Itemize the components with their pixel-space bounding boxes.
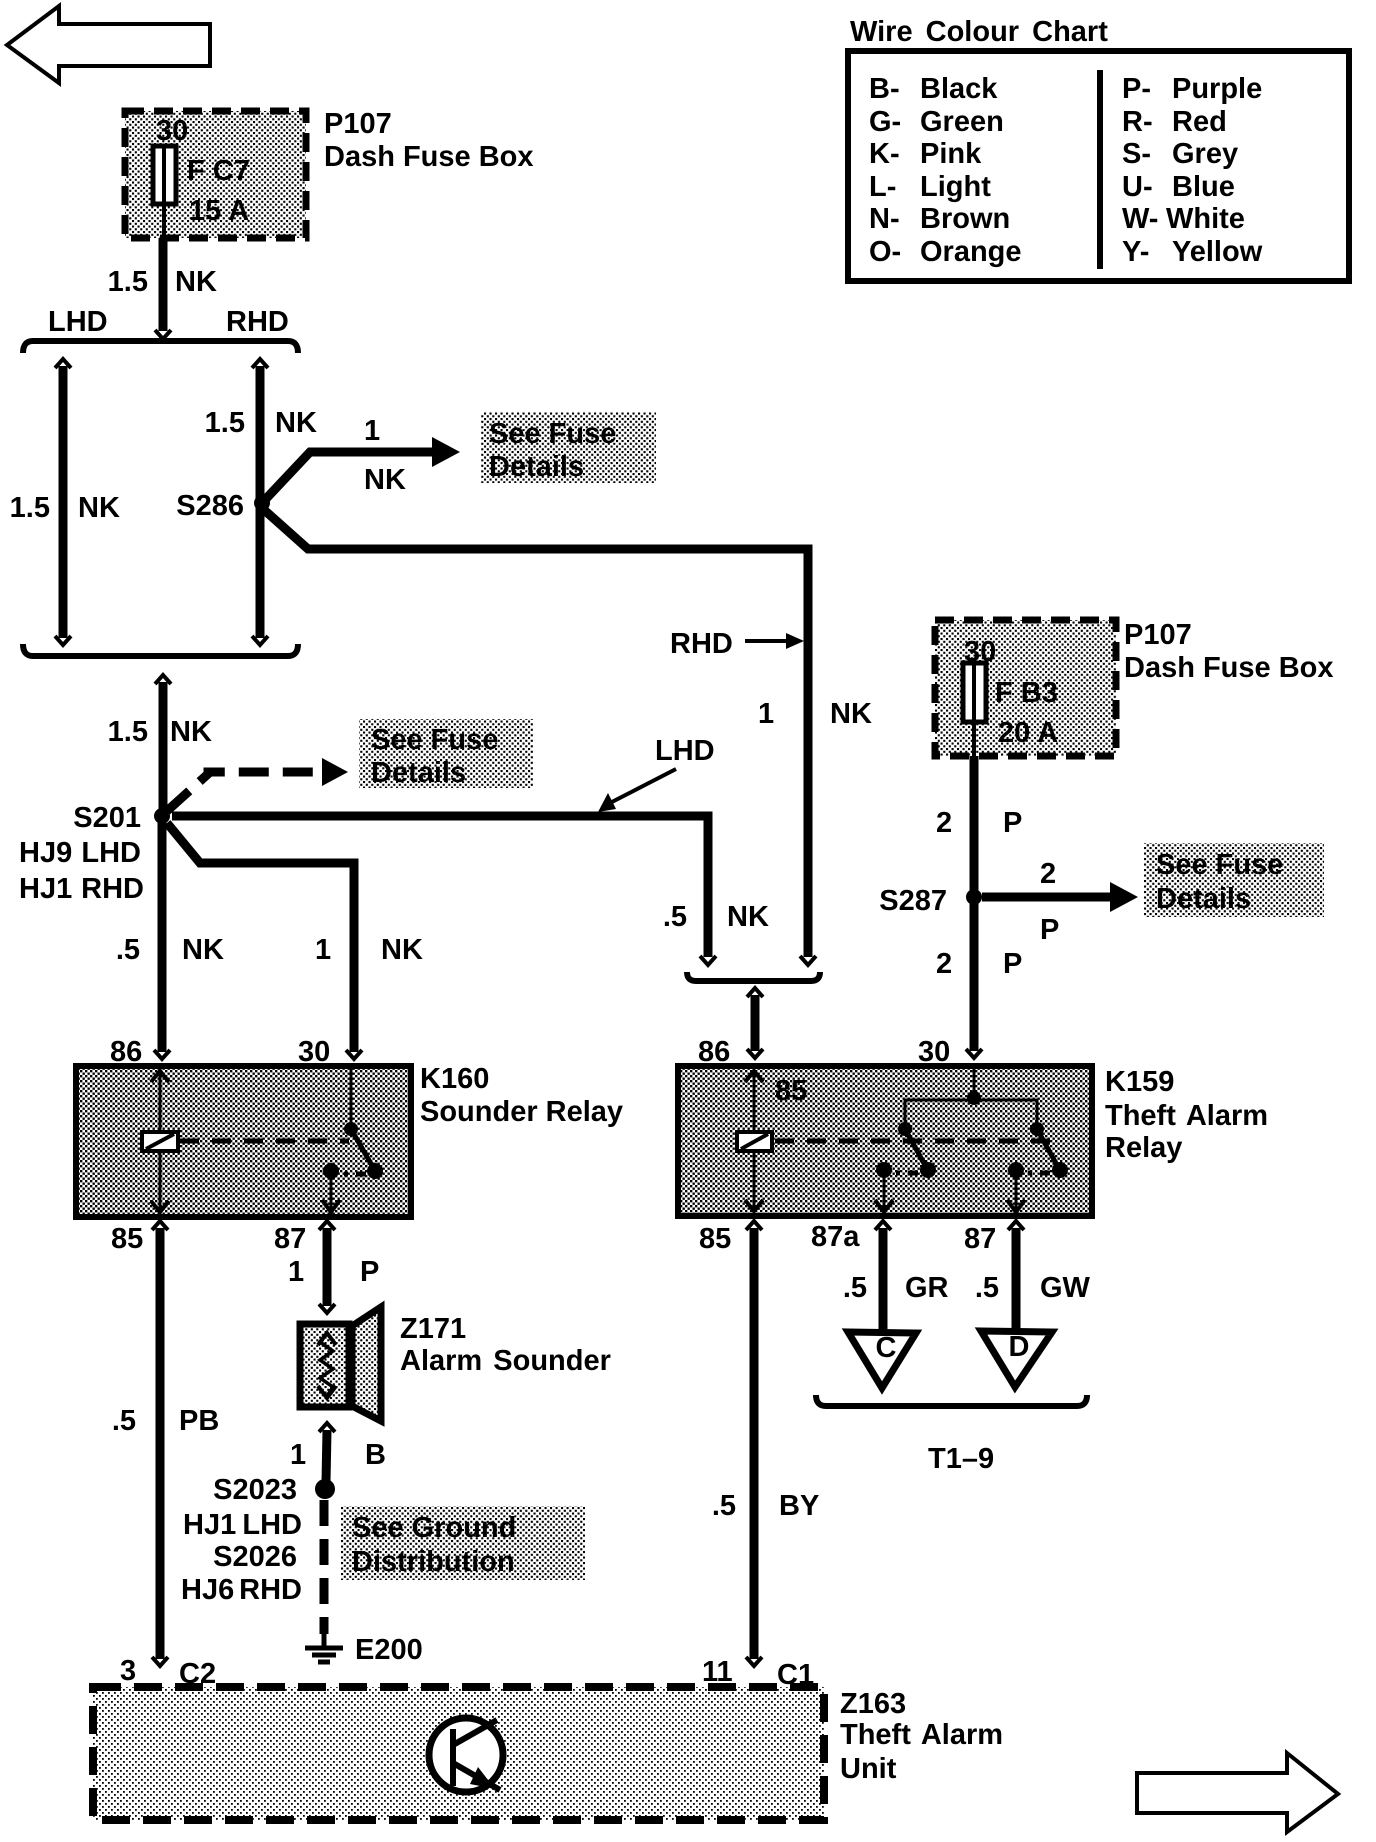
svg-text:Details: Details <box>489 451 584 483</box>
svg-text:C: C <box>876 1332 897 1364</box>
svg-text:1.5: 1.5 <box>205 407 245 439</box>
svg-text:T1–9: T1–9 <box>928 1443 994 1475</box>
svg-text:Grey: Grey <box>1172 138 1238 170</box>
wire LHD branch (left vertical) <box>55 359 71 645</box>
svg-text:S287: S287 <box>879 885 947 917</box>
svg-text:Unit: Unit <box>840 1753 897 1785</box>
relay K159 box <box>678 1066 1092 1216</box>
wire K159 87a to connector C <box>875 1221 891 1334</box>
wire RHD branch (right vertical) <box>252 359 268 645</box>
svg-text:87a: 87a <box>811 1221 860 1253</box>
svg-text:NK: NK <box>175 266 217 298</box>
svg-text:Black: Black <box>920 73 998 105</box>
LHD pointer <box>598 735 715 812</box>
nav arrow left (top-left page arrow) <box>7 6 210 83</box>
svg-text:G-: G- <box>869 106 901 138</box>
svg-text:.5: .5 <box>843 1272 867 1304</box>
svg-text:HJ6: HJ6 <box>181 1574 234 1606</box>
svg-text:Green: Green <box>920 106 1004 138</box>
wire colour chart box <box>848 51 1349 281</box>
svg-text:F C7: F C7 <box>187 155 250 187</box>
svg-text:30: 30 <box>156 115 188 147</box>
K159 switch left (to 87a) <box>875 1122 936 1212</box>
K160 coil dashed link <box>180 1139 349 1144</box>
svg-text:BY: BY <box>779 1490 819 1522</box>
connector D triangle <box>981 1331 1052 1387</box>
wire S286 to RHD drop (long) <box>262 508 816 965</box>
svg-text:NK: NK <box>182 934 224 966</box>
svg-text:Blue: Blue <box>1172 171 1235 203</box>
K159 switch right (to 87) <box>1007 1122 1068 1212</box>
svg-text:Red: Red <box>1172 106 1227 138</box>
svg-text:P: P <box>1040 914 1059 946</box>
svg-text:Alarm Sounder: Alarm Sounder <box>400 1345 611 1377</box>
K160 coil line pin86-85 <box>151 1069 169 1214</box>
svg-text:1: 1 <box>758 698 774 730</box>
dashed arrow S201 to fuse details <box>167 758 348 811</box>
svg-text:Z163: Z163 <box>840 1688 906 1720</box>
svg-text:Wire Colour Chart: Wire Colour Chart <box>850 16 1108 48</box>
svg-text:.5: .5 <box>712 1490 736 1522</box>
dash fuse box P107 (fuse F B3) <box>935 620 1116 756</box>
bracket LHD/RHD merge (right) <box>687 972 820 981</box>
svg-text:NK: NK <box>727 901 769 933</box>
fuse F B3 symbol <box>963 663 986 756</box>
svg-text:P107: P107 <box>324 108 392 140</box>
svg-text:NK: NK <box>78 492 120 524</box>
svg-text:See Fuse: See Fuse <box>1156 849 1283 881</box>
wire K159 87 to connector D <box>1008 1221 1024 1333</box>
wire K159 85 to theft alarm unit <box>746 1221 762 1666</box>
svg-text:U-: U- <box>1122 171 1153 203</box>
splice node S2023/S2026 <box>315 1479 335 1499</box>
K159 pin30 feed bar <box>905 1069 1037 1128</box>
svg-text:S201: S201 <box>73 802 141 834</box>
svg-text:.5: .5 <box>112 1405 136 1437</box>
svg-text:20 A: 20 A <box>998 717 1058 749</box>
svg-text:Light: Light <box>920 171 991 203</box>
wire fuse C7 to LHD/RHD bracket <box>159 238 168 331</box>
bracket LHD/RHD top <box>23 341 298 353</box>
svg-text:O-: O- <box>869 236 901 268</box>
node S287 <box>966 889 982 905</box>
svg-text:Relay: Relay <box>1105 1132 1182 1164</box>
dashed ground wire <box>320 1500 329 1634</box>
svg-text:NK: NK <box>170 716 212 748</box>
svg-text:See Fuse: See Fuse <box>371 724 498 756</box>
K160 coil <box>142 1132 178 1151</box>
svg-text:RHD: RHD <box>239 1574 302 1606</box>
svg-text:Dash Fuse Box: Dash Fuse Box <box>324 141 534 173</box>
svg-text:L-: L- <box>869 171 896 203</box>
svg-text:GR: GR <box>905 1272 949 1304</box>
svg-text:F B3: F B3 <box>995 677 1058 709</box>
svg-text:Pink: Pink <box>920 138 982 170</box>
wire K160 85 to theft alarm unit <box>152 1221 168 1666</box>
svg-text:RHD: RHD <box>670 628 733 660</box>
svg-text:P-: P- <box>1122 73 1151 105</box>
svg-text:1: 1 <box>290 1439 306 1471</box>
svg-text:PB: PB <box>179 1405 219 1437</box>
svg-text:.5: .5 <box>975 1272 999 1304</box>
svg-text:Theft Alarm: Theft Alarm <box>1105 1100 1268 1132</box>
arrow S287 to fuse details <box>982 882 1138 912</box>
svg-text:NK: NK <box>381 934 423 966</box>
wire S201 to K160 pin 86 <box>154 816 362 1059</box>
svg-text:S286: S286 <box>176 490 244 522</box>
svg-text:1: 1 <box>288 1256 304 1288</box>
svg-text:3: 3 <box>120 1655 136 1687</box>
svg-text:Theft Alarm: Theft Alarm <box>840 1719 1003 1751</box>
svg-text:1.5: 1.5 <box>10 492 50 524</box>
svg-text:Details: Details <box>371 757 466 789</box>
bracket T1-9 <box>816 1395 1087 1406</box>
svg-text:1.5: 1.5 <box>108 716 148 748</box>
svg-text:E200: E200 <box>355 1634 423 1666</box>
K160 switch (pin30 to 87) <box>322 1069 383 1212</box>
svg-text:Purple: Purple <box>1172 73 1262 105</box>
wire S286 to fuse details arrow <box>262 437 460 503</box>
svg-text:Distribution: Distribution <box>352 1546 515 1578</box>
nav arrow right (bottom-right page arrow) <box>1137 1753 1338 1832</box>
svg-text:1: 1 <box>364 415 380 447</box>
svg-text:NK: NK <box>364 464 406 496</box>
see ground distribution box <box>341 1506 585 1580</box>
transistor symbol (inside Z163) <box>429 1718 503 1792</box>
svg-text:NK: NK <box>830 698 872 730</box>
K159 coil <box>737 1132 772 1151</box>
svg-text:Details: Details <box>1156 883 1251 915</box>
svg-text:2: 2 <box>936 807 952 839</box>
svg-text:Sounder Relay: Sounder Relay <box>420 1096 623 1128</box>
ground E200 <box>305 1634 343 1662</box>
svg-text:.5: .5 <box>663 901 687 933</box>
svg-text:1.5: 1.5 <box>108 266 148 298</box>
svg-text:LHD: LHD <box>48 306 108 338</box>
bracket LHD/RHD bottom <box>23 644 298 656</box>
svg-text:K159: K159 <box>1105 1066 1174 1098</box>
svg-text:White: White <box>1166 203 1245 235</box>
svg-text:K-: K- <box>869 138 900 170</box>
wire colour chart divider <box>1097 70 1103 269</box>
svg-text:85: 85 <box>699 1223 731 1255</box>
alarm sounder Z171 <box>300 1307 381 1421</box>
wire bracket to K159 pin 86 <box>747 988 763 1058</box>
svg-text:P: P <box>360 1256 379 1288</box>
svg-text:1: 1 <box>315 934 331 966</box>
wire sounder to splice <box>319 1423 335 1482</box>
node S286 <box>254 495 270 511</box>
wire S201 LHD long run <box>172 816 716 965</box>
svg-text:2: 2 <box>936 948 952 980</box>
svg-text:85: 85 <box>775 1075 807 1107</box>
svg-text:LHD: LHD <box>242 1509 302 1541</box>
wire hook at bracket <box>155 330 171 339</box>
svg-text:S2026: S2026 <box>213 1541 297 1573</box>
svg-text:RHD: RHD <box>81 873 144 905</box>
svg-text:P107: P107 <box>1124 619 1192 651</box>
svg-text:Orange: Orange <box>920 236 1022 268</box>
svg-text:S-: S- <box>1122 138 1151 170</box>
svg-text:30: 30 <box>964 636 996 668</box>
wire bracket to S201 <box>155 675 171 816</box>
wire K160 87 to sounder <box>319 1221 335 1313</box>
svg-text:NK: NK <box>275 407 317 439</box>
svg-text:2: 2 <box>1040 858 1056 890</box>
svg-text:HJ1: HJ1 <box>19 873 72 905</box>
svg-text:B: B <box>365 1439 386 1471</box>
svg-text:87: 87 <box>274 1223 306 1255</box>
svg-text:Dash Fuse Box: Dash Fuse Box <box>1124 652 1334 684</box>
svg-text:B-: B- <box>869 73 900 105</box>
svg-text:GW: GW <box>1040 1272 1091 1304</box>
connector C triangle <box>848 1332 916 1388</box>
relay K160 box <box>76 1066 411 1217</box>
wire fuse B3 to K159 pin 30 <box>966 756 982 1058</box>
see fuse details box 1 <box>481 412 656 483</box>
node S201 <box>154 808 170 824</box>
svg-text:P: P <box>1003 807 1022 839</box>
svg-text:N-: N- <box>869 203 900 235</box>
svg-text:K160: K160 <box>420 1063 489 1095</box>
dash fuse box P107 (fuse F C7) <box>125 111 306 238</box>
svg-text:HJ1: HJ1 <box>183 1509 236 1541</box>
see fuse details box 3 <box>1144 843 1324 917</box>
svg-text:HJ9: HJ9 <box>19 837 72 869</box>
svg-text:LHD: LHD <box>81 837 141 869</box>
svg-text:RHD: RHD <box>226 306 289 338</box>
svg-text:See Ground: See Ground <box>352 1512 516 1544</box>
fuse F C7 symbol <box>153 146 176 238</box>
svg-text:Brown: Brown <box>920 203 1010 235</box>
svg-text:LHD: LHD <box>655 735 715 767</box>
svg-text:D: D <box>1009 1331 1030 1363</box>
svg-text:Z171: Z171 <box>400 1313 466 1345</box>
svg-text:S2023: S2023 <box>213 1474 297 1506</box>
svg-text:See Fuse: See Fuse <box>489 418 616 450</box>
svg-text:R-: R- <box>1122 106 1153 138</box>
svg-text:87: 87 <box>964 1223 996 1255</box>
K159 coil dashed link <box>775 1139 1055 1144</box>
theft alarm unit Z163 box <box>93 1687 824 1820</box>
svg-text:P: P <box>1003 948 1022 980</box>
wire S201 to K160 pin 30 <box>167 823 354 1052</box>
svg-text:.5: .5 <box>116 934 140 966</box>
RHD pointer <box>670 628 804 660</box>
svg-text:85: 85 <box>111 1223 143 1255</box>
svg-text:W-: W- <box>1122 203 1158 235</box>
svg-text:Y-: Y- <box>1122 236 1149 268</box>
svg-text:15 A: 15 A <box>189 195 249 227</box>
see fuse details box 2 <box>359 719 533 789</box>
K159 coil line pin86-85 <box>745 1069 763 1213</box>
svg-text:Yellow: Yellow <box>1172 236 1263 268</box>
